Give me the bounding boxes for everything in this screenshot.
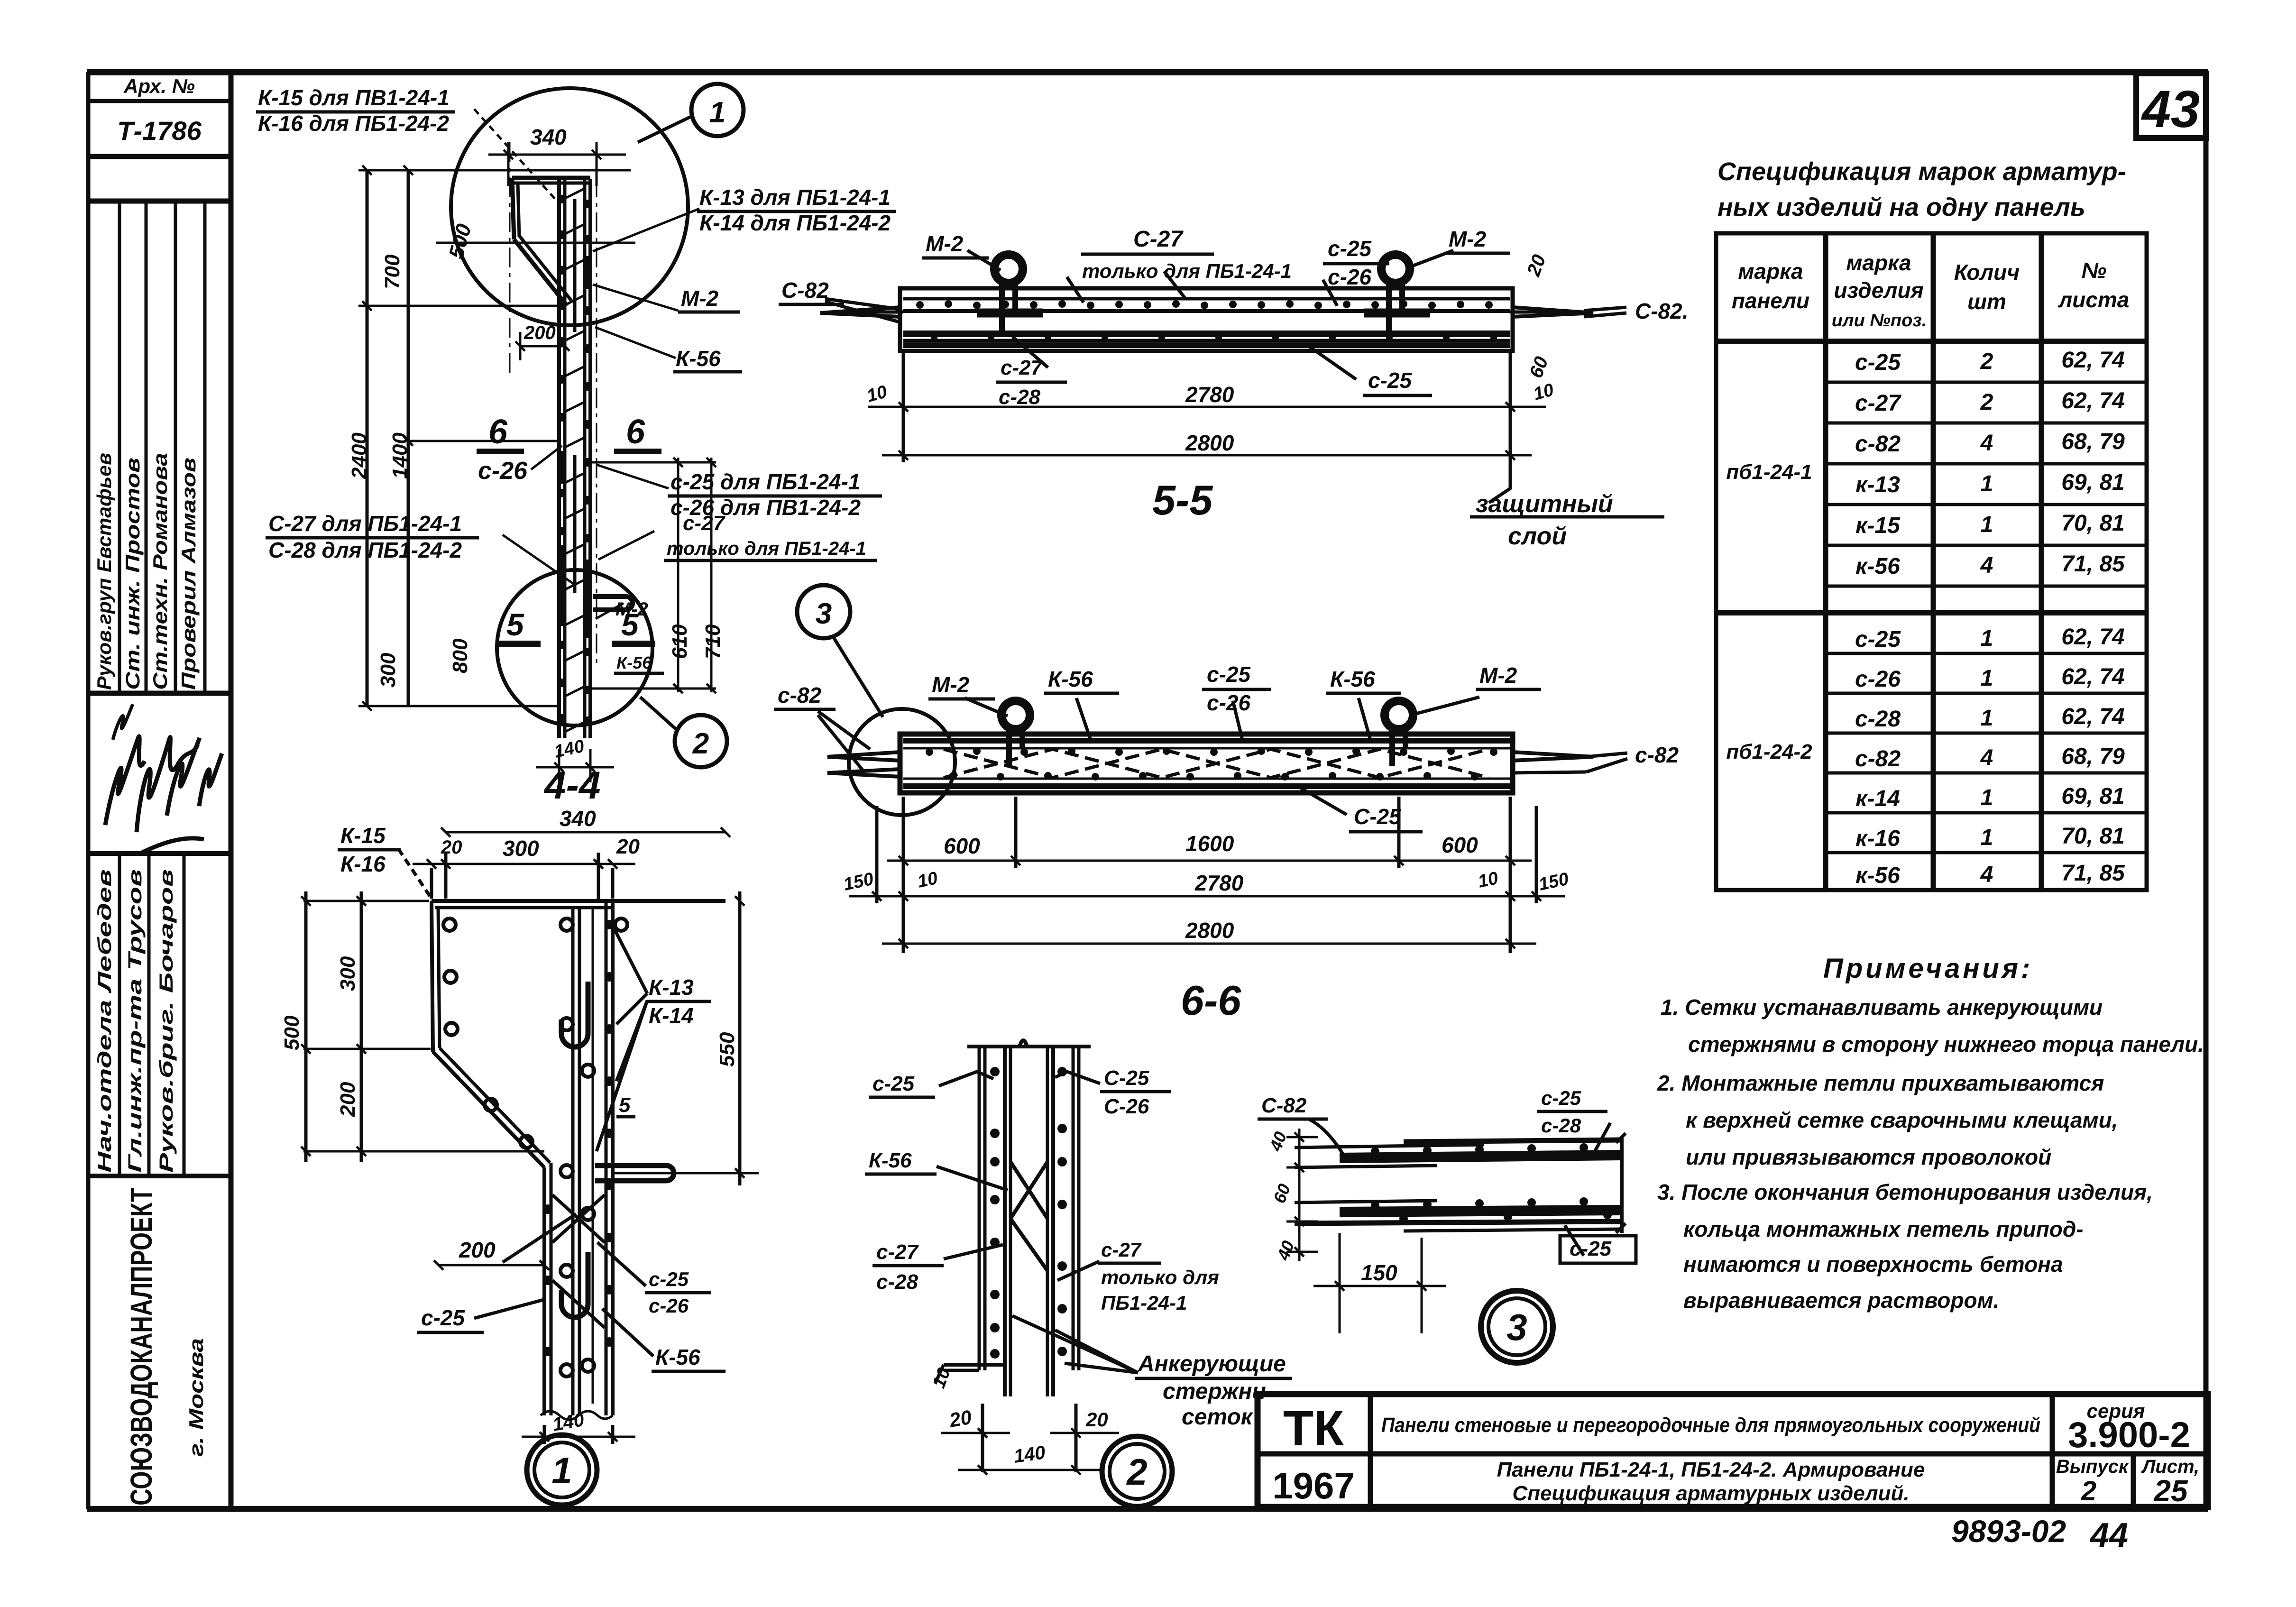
svg-text:62, 74: 62, 74 [2061, 348, 2124, 373]
svg-text:3. После окончания бетонирован: 3. После окончания бетонирования изделия… [1657, 1180, 2153, 1204]
svg-text:4: 4 [1980, 553, 1993, 578]
svg-text:1600: 1600 [1185, 831, 1234, 856]
svg-text:К-56: К-56 [655, 1345, 700, 1369]
svg-text:К-14 для ПБ1-24-2: К-14 для ПБ1-24-2 [699, 211, 891, 235]
svg-text:Руков.груп Евстафьев: Руков.груп Евстафьев [93, 453, 115, 690]
svg-text:600: 600 [944, 834, 980, 858]
svg-text:600: 600 [1442, 833, 1478, 857]
svg-text:только для ПБ1-24-1: только для ПБ1-24-1 [1082, 260, 1292, 282]
svg-text:К-56: К-56 [869, 1149, 912, 1172]
svg-text:62, 74: 62, 74 [2061, 624, 2124, 650]
svg-text:с-26: с-26 [478, 457, 528, 485]
svg-text:20: 20 [441, 837, 462, 858]
svg-text:2: 2 [1980, 349, 1993, 374]
svg-text:4: 4 [1980, 431, 1993, 456]
svg-text:с-25: с-25 [872, 1072, 915, 1095]
svg-text:СОЮЗВОДОКАНАЛПРОЕКТ: СОЮЗВОДОКАНАЛПРОЕКТ [124, 1188, 158, 1506]
svg-text:С-27 для ПБ1-24-1: С-27 для ПБ1-24-1 [268, 511, 462, 536]
svg-text:к-16: к-16 [1855, 826, 1900, 851]
svg-text:С-28 для ПБ1-24-2: С-28 для ПБ1-24-2 [268, 538, 462, 562]
svg-text:нимаются и поверхность бето: нимаются и поверхность бетона [1683, 1252, 2063, 1276]
svg-text:140: 140 [1012, 1442, 1047, 1467]
svg-text:с-25: с-25 [1368, 368, 1412, 393]
svg-text:20: 20 [1085, 1408, 1108, 1431]
svg-text:изделия: изделия [1834, 278, 1923, 303]
svg-text:К-15: К-15 [340, 823, 386, 848]
svg-text:С-27: С-27 [1133, 227, 1184, 252]
svg-text:к-13: к-13 [1855, 472, 1900, 497]
svg-text:сеток: сеток [1182, 1405, 1254, 1430]
svg-text:1967: 1967 [1272, 1465, 1355, 1506]
svg-text:№: № [2082, 258, 2107, 283]
svg-text:1: 1 [1981, 512, 1993, 537]
svg-text:71, 85: 71, 85 [2061, 861, 2125, 886]
svg-text:200: 200 [336, 1082, 359, 1117]
svg-text:К-16: К-16 [340, 852, 386, 876]
svg-text:Колич: Колич [1954, 260, 2020, 285]
svg-text:только для: только для [1101, 1266, 1219, 1288]
svg-text:69, 81: 69, 81 [2061, 784, 2124, 809]
svg-text:4: 4 [1980, 745, 1993, 771]
svg-text:Ст.техн. Романова: Ст.техн. Романова [149, 453, 171, 690]
svg-text:1400: 1400 [388, 432, 412, 479]
svg-text:М-2: М-2 [1479, 663, 1517, 688]
svg-text:300: 300 [503, 836, 539, 861]
svg-text:с-27: с-27 [1101, 1239, 1142, 1261]
svg-text:с-26: с-26 [1207, 690, 1250, 715]
svg-text:6: 6 [626, 413, 645, 451]
svg-text:с-82: с-82 [1855, 432, 1901, 457]
svg-text:44: 44 [2089, 1516, 2128, 1554]
svg-text:3: 3 [1506, 1306, 1527, 1348]
svg-text:62, 74: 62, 74 [2061, 704, 2124, 729]
svg-text:с-25: с-25 [1541, 1087, 1581, 1109]
svg-text:с-28: с-28 [1855, 707, 1901, 732]
svg-text:г. Москва: г. Москва [185, 1338, 207, 1457]
svg-text:с-82: с-82 [1635, 743, 1679, 767]
svg-text:Руков.бриг. Бочаров: Руков.бриг. Бочаров [156, 869, 177, 1173]
svg-text:с-27: с-27 [683, 512, 726, 535]
svg-text:5-5: 5-5 [1152, 477, 1213, 523]
svg-text:к верхней сетке сварочными кле: к верхней сетке сварочными клещами, [1686, 1108, 2118, 1132]
svg-text:71, 85: 71, 85 [2061, 551, 2125, 577]
svg-text:к-15: к-15 [1855, 513, 1901, 538]
svg-text:с-82: с-82 [778, 683, 821, 707]
svg-text:6-6: 6-6 [1181, 977, 1241, 1024]
svg-text:340: 340 [530, 125, 567, 149]
svg-text:М-2: М-2 [932, 672, 970, 697]
svg-text:С-25: С-25 [1104, 1066, 1149, 1090]
svg-text:610: 610 [668, 624, 691, 659]
svg-text:К-13 для ПБ1-24-1: К-13 для ПБ1-24-1 [699, 185, 891, 210]
svg-text:К-15 для ПВ1-24-1: К-15 для ПВ1-24-1 [258, 85, 450, 110]
svg-text:стержнями в сторону нижнего то: стержнями в сторону нижнего торца панели… [1688, 1032, 2204, 1056]
svg-text:20: 20 [947, 1405, 973, 1432]
svg-text:Выпуск: Выпуск [2056, 1456, 2129, 1477]
svg-text:с-25: с-25 [1328, 236, 1372, 261]
svg-text:с-25: с-25 [649, 1268, 689, 1290]
svg-text:340: 340 [560, 806, 596, 831]
svg-text:68, 79: 68, 79 [2061, 429, 2125, 454]
svg-text:шт: шт [1967, 289, 2006, 314]
svg-text:62, 74: 62, 74 [2061, 388, 2124, 413]
svg-text:43: 43 [2141, 80, 2200, 138]
svg-text:2780: 2780 [1194, 871, 1244, 895]
svg-text:с-26: с-26 [649, 1295, 689, 1317]
svg-text:или привязываются проволокой: или привязываются проволокой [1686, 1145, 2051, 1169]
svg-text:к-56: к-56 [1855, 863, 1900, 888]
svg-text:Ст. инж. Простов: Ст. инж. Простов [121, 458, 144, 690]
svg-text:панели: панели [1732, 288, 1809, 313]
svg-text:Анкерующие: Анкерующие [1138, 1351, 1286, 1377]
svg-text:С-82: С-82 [1261, 1094, 1307, 1117]
svg-text:К-14: К-14 [649, 1003, 694, 1028]
svg-text:1: 1 [551, 1450, 572, 1491]
svg-text:Панели стеновые и перегородочн: Панели стеновые и перегородочные для пря… [1381, 1414, 2040, 1437]
svg-text:Примечания:: Примечания: [1823, 953, 2033, 984]
svg-text:только для ПБ1-24-1: только для ПБ1-24-1 [667, 538, 866, 559]
svg-text:1: 1 [1981, 626, 1993, 651]
svg-text:с-26: с-26 [1855, 667, 1901, 692]
svg-text:К-56: К-56 [676, 346, 721, 371]
svg-text:1: 1 [1981, 785, 1993, 810]
svg-text:М-2: М-2 [615, 599, 648, 620]
svg-text:1: 1 [1981, 706, 1993, 731]
svg-text:20: 20 [616, 835, 640, 858]
svg-text:1. Сетки устанавливать анкерую: 1. Сетки устанавливать анкерующими [1661, 995, 2103, 1019]
svg-text:с-28: с-28 [999, 386, 1041, 409]
svg-text:5: 5 [619, 1093, 631, 1117]
svg-text:300: 300 [377, 652, 400, 688]
svg-text:кольца монтажных петель при: кольца монтажных петель припод- [1683, 1217, 2084, 1241]
svg-text:ных изделий на одну панель: ных изделий на одну панель [1717, 193, 2085, 221]
svg-text:С-26: С-26 [1104, 1095, 1149, 1118]
svg-text:2: 2 [692, 727, 709, 760]
svg-text:с-27: с-27 [1001, 356, 1044, 379]
svg-text:или №поз.: или №поз. [1832, 311, 1927, 331]
svg-text:с-27: с-27 [876, 1240, 919, 1264]
svg-text:Арх. №: Арх. № [123, 75, 195, 97]
svg-text:Проверил Алмазов: Проверил Алмазов [177, 458, 200, 690]
svg-text:800: 800 [449, 638, 472, 673]
svg-text:с-25: с-25 [421, 1305, 465, 1330]
svg-text:защитный: защитный [1476, 490, 1613, 518]
svg-text:1: 1 [1981, 471, 1993, 496]
svg-text:к-56: к-56 [1855, 554, 1900, 579]
svg-text:Панели ПБ1-24-1, ПБ1-24-2. Арм: Панели ПБ1-24-1, ПБ1-24-2. Армирование [1497, 1458, 1925, 1481]
svg-text:1: 1 [709, 96, 726, 129]
svg-text:пб1-24-2: пб1-24-2 [1726, 740, 1812, 763]
svg-text:3.900-2: 3.900-2 [2068, 1415, 2190, 1455]
svg-text:70, 81: 70, 81 [2061, 824, 2124, 849]
svg-text:М-2: М-2 [926, 231, 964, 256]
svg-text:69, 81: 69, 81 [2061, 470, 2124, 495]
svg-text:К-56: К-56 [1330, 667, 1375, 691]
svg-text:1: 1 [1981, 825, 1993, 850]
svg-text:с-82: с-82 [1855, 746, 1901, 771]
svg-text:4-4: 4-4 [543, 764, 601, 807]
svg-text:4: 4 [1980, 862, 1993, 887]
svg-text:2: 2 [1126, 1451, 1147, 1493]
svg-text:Спецификация арматурных издел: Спецификация арматурных изделий. [1512, 1482, 1909, 1505]
svg-text:выравнивается раствором.: выравнивается раствором. [1683, 1288, 1999, 1313]
svg-text:М-2: М-2 [681, 286, 719, 311]
svg-text:М-2: М-2 [1449, 227, 1487, 251]
svg-text:2: 2 [2081, 1476, 2096, 1506]
svg-text:слой: слой [1508, 523, 1567, 550]
svg-text:Гл.инж.пр-та Трусов: Гл.инж.пр-та Трусов [125, 869, 146, 1173]
svg-text:Т-1786: Т-1786 [117, 116, 202, 146]
svg-text:710: 710 [701, 624, 725, 659]
svg-text:2780: 2780 [1185, 382, 1234, 407]
svg-text:с-26: с-26 [1328, 265, 1371, 289]
svg-text:10: 10 [916, 868, 939, 892]
svg-text:5: 5 [506, 607, 524, 642]
svg-text:С-82: С-82 [781, 278, 829, 303]
svg-text:3: 3 [816, 597, 832, 630]
svg-text:200: 200 [459, 1238, 496, 1262]
svg-text:стержни: стержни [1163, 1379, 1266, 1404]
svg-text:6: 6 [488, 413, 508, 451]
svg-text:10: 10 [1476, 868, 1500, 892]
svg-text:К-56: К-56 [616, 653, 652, 672]
svg-text:200: 200 [523, 322, 556, 343]
svg-text:150: 150 [1361, 1260, 1397, 1285]
svg-text:550: 550 [716, 1032, 739, 1067]
svg-text:К-13: К-13 [649, 975, 694, 1000]
svg-text:68, 79: 68, 79 [2061, 744, 2125, 769]
svg-text:2800: 2800 [1185, 431, 1234, 455]
svg-text:с-25: с-25 [1855, 350, 1901, 375]
svg-text:к-14: к-14 [1855, 786, 1900, 811]
svg-text:К-56: К-56 [1048, 667, 1093, 691]
svg-text:марка: марка [1846, 250, 1911, 275]
svg-text:Нач.отдела Лебедев: Нач.отдела Лебедев [94, 869, 115, 1173]
svg-text:С-25: С-25 [1354, 804, 1402, 829]
svg-text:с-25: с-25 [1207, 662, 1251, 687]
svg-text:70, 81: 70, 81 [2061, 511, 2124, 536]
svg-text:с-25: с-25 [1570, 1237, 1612, 1260]
svg-text:700: 700 [381, 254, 404, 289]
svg-text:Спецификация марок арматур-: Спецификация марок арматур- [1717, 157, 2126, 186]
svg-text:К-16 для ПБ1-24-2: К-16 для ПБ1-24-2 [258, 111, 450, 136]
svg-text:с-28: с-28 [876, 1270, 918, 1294]
svg-text:62, 74: 62, 74 [2061, 664, 2124, 689]
svg-text:2800: 2800 [1185, 918, 1234, 943]
svg-text:с-25: с-25 [1855, 627, 1901, 652]
svg-text:25: 25 [2153, 1474, 2188, 1508]
svg-text:2. Монтажные петли прихватываю: 2. Монтажные петли прихватываются [1657, 1071, 2104, 1095]
svg-text:500: 500 [280, 1015, 303, 1050]
svg-text:с-25 для ПБ1-24-1: с-25 для ПБ1-24-1 [670, 469, 860, 494]
svg-text:1: 1 [1981, 666, 1993, 691]
svg-text:марка: марка [1738, 259, 1803, 284]
svg-text:9893-02: 9893-02 [1951, 1514, 2066, 1549]
svg-text:ПБ1-24-1: ПБ1-24-1 [1101, 1292, 1187, 1314]
svg-text:2: 2 [1980, 390, 1993, 415]
svg-text:пб1-24-1: пб1-24-1 [1726, 460, 1812, 484]
svg-text:с-28: с-28 [1541, 1114, 1581, 1137]
svg-text:С-82.: С-82. [1635, 299, 1688, 323]
svg-text:листа: листа [2058, 287, 2130, 312]
svg-text:2400: 2400 [348, 432, 371, 479]
svg-text:с-27: с-27 [1855, 391, 1901, 416]
svg-text:ТК: ТК [1283, 1401, 1344, 1456]
svg-text:300: 300 [336, 956, 359, 991]
